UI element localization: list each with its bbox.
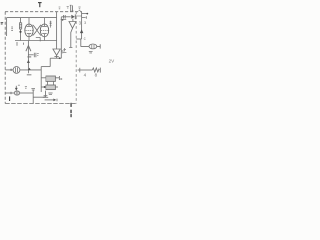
label tick above top edge	[38, 3, 42, 8]
dashed enclosure left edge	[4, 12, 6, 104]
bar tick	[27, 56, 31, 58]
junction dot on secondary lead	[44, 86, 46, 88]
battery B2	[43, 91, 48, 98]
label left of crystal	[67, 6, 69, 8]
anode feed wire down to amp	[56, 18, 58, 49]
long vertical from cluster to node	[60, 17, 62, 58]
resistor R2 (grid, left of tube V1)	[19, 18, 21, 41]
small blob on node	[59, 57, 61, 59]
second tap tick	[82, 16, 87, 19]
plus tick on wire	[10, 92, 12, 94]
left terminal tick	[79, 68, 81, 73]
stub wire right of riser	[33, 95, 45, 97]
amplifier triangle A1	[53, 49, 60, 55]
junction arrow on wire	[28, 68, 31, 70]
small label right of arrow	[25, 87, 27, 89]
wire crystal to node	[20, 69, 41, 71]
dashed enclosure top edge	[5, 11, 82, 13]
tube V2 envelope	[40, 24, 48, 37]
earpiece feed wire	[81, 39, 89, 47]
primary left lead	[41, 77, 46, 79]
arrow mark right of lead	[61, 78, 63, 80]
right terminal tick	[99, 68, 101, 73]
crystal element B1 (circle with plates)	[13, 67, 20, 74]
riser wire with capacitor cap	[31, 89, 35, 104]
arrow above microphone	[15, 85, 20, 90]
cathode bus wire	[15, 40, 57, 42]
resistor R1 (small marks left wall)	[11, 27, 13, 30]
wire left of microphone	[5, 92, 14, 94]
earpiece P1 (oval)	[89, 44, 97, 49]
tube V1 plate and grid	[26, 18, 34, 41]
tube V2 plate and grid	[41, 18, 49, 41]
node wire at 58	[50, 57, 61, 59]
branch down-left	[49, 58, 51, 66]
capacitor C3 (mid column)	[63, 47, 73, 52]
cross-coupling wires between V1 and V2	[33, 25, 41, 36]
label below earpiece	[89, 51, 93, 53]
capacitor C1 branch	[28, 53, 38, 57]
svg-text:2V: 2V	[109, 59, 116, 64]
rail left corner drop	[6, 18, 8, 36]
label right of triangle	[61, 51, 63, 53]
vertical caption text	[70, 103, 72, 117]
label near rail corner	[59, 7, 61, 9]
secondary right lead	[55, 86, 58, 88]
capacitor bracket (right of bus)	[36, 37, 40, 41]
wire microphone to riser	[20, 92, 34, 94]
wire triangle down	[71, 28, 73, 47]
B+ rail	[7, 17, 57, 19]
microphone M1 (lower oval)	[14, 91, 19, 95]
primary right lead with tick	[55, 76, 59, 80]
small tick on cathode bus	[16, 42, 18, 46]
dash left of wire	[23, 43, 25, 45]
electrode wire	[27, 41, 29, 71]
coupling capacitor C2	[54, 56, 58, 58]
secondary left lead	[41, 86, 46, 88]
lower external wire	[78, 69, 93, 71]
arrow wire at battery	[45, 99, 54, 101]
external wire from dashed rail	[76, 12, 83, 39]
plate resistor R3 (right of V2)	[50, 21, 52, 28]
transformer link wires	[47, 81, 53, 85]
svg-text:c: c	[84, 36, 86, 41]
resistor R4 zigzag	[92, 68, 99, 72]
tap tick with dot	[82, 13, 87, 15]
top mid cluster: series capacitor	[61, 15, 71, 21]
amplifier triangle A2	[69, 22, 76, 29]
tick and label below wire	[28, 70, 30, 73]
battery label	[48, 93, 52, 95]
transformer T1 primary	[46, 76, 55, 81]
crystal Y1 (vertical pair to rail)	[70, 5, 74, 12]
transformer T1 secondary	[46, 85, 55, 90]
diode D1	[71, 14, 81, 19]
wire to crystal	[5, 69, 13, 71]
feed wire from top dashed rail	[56, 12, 58, 18]
wire diode to triangle	[72, 19, 74, 22]
label blob outside left border	[1, 23, 4, 24]
dashed enclosure right edge	[75, 12, 77, 104]
small arrowhead on wire	[27, 60, 30, 63]
earpiece right lead and terminal	[97, 44, 100, 48]
tube V1 envelope	[25, 24, 33, 37]
plus terminal	[10, 69, 12, 71]
chevron arrowhead	[26, 46, 31, 52]
horizontal link wire	[41, 66, 50, 68]
dashed enclosure bottom edge	[5, 103, 76, 105]
dark dash at lower left border	[9, 96, 11, 101]
left branch vertical wire	[40, 67, 42, 92]
output wire below triangle	[56, 55, 58, 58]
label left of external wire	[78, 7, 80, 10]
